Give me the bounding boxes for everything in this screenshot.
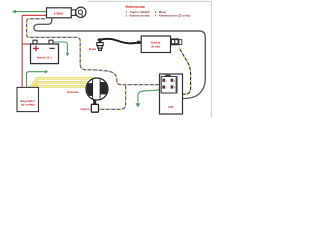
svg-text:de voltaje: de voltaje [21,103,35,107]
pickup "Captor" [91,104,98,112]
svg-text:Captor: Captor [80,107,90,111]
ground symbol (masa arrow, battery) [66,53,70,57]
svg-text:Referencias: Referencias [126,5,145,9]
ground symbol (masa arrow, left) [12,10,16,14]
wire: green ground from CDI pin 3 [135,90,159,108]
CDI pin 3 [162,86,165,89]
wire: red branch to battery + terminal [22,43,33,45]
CDI connector [161,75,177,93]
wire: green ground lead from ignition switch [12,10,47,14]
battery BT1 positive terminal [33,40,37,44]
wire: green ground from regulator [27,70,49,87]
ground symbol (masa arrow, CDI) [135,103,140,107]
battery BT1 body [31,44,59,64]
battery + polarity mark [33,46,39,52]
ignition coil "Bobina de alta" [137,36,171,53]
wire: red 12V from switch down to battery + and regulator [22,15,46,87]
wire: yellow stator output 1 (top) [36,78,95,87]
svg-text:Bujia: Bujia [89,47,96,51]
svg-text:CDI: CDI [168,105,173,109]
svg-text:de alta: de alta [151,44,161,48]
stator coil block left [86,82,108,96]
key shaft [71,10,75,16]
wire: black/yellow from ignition coil to CDI pin 2 [179,48,190,95]
CDI pin 4 [171,86,174,89]
CDI unit box [160,74,183,114]
wire: yellow stator output 2 (middle) [33,82,92,87]
spark plug "Bujia" [97,38,103,50]
key head [76,7,86,17]
wire: green ground from battery - terminal [53,42,69,56]
battery - polarity mark [50,47,55,49]
flywheel / stator circle [86,78,108,100]
wire: blue/yellow signal wire from switch to CDI pin 1 [27,19,160,85]
CDI pin 1 [162,79,165,82]
wire: blue/yellow branch from pickup (captor) to CDI signal line [99,85,126,110]
wire: grey feed from switch around to CDI pin 4 [34,18,205,99]
ignition switch "Llave" [47,8,72,18]
wire: yellow stator output 3 (bottom) [30,86,88,87]
wire: spark plug HT cable [101,39,138,44]
svg-text:4 - Alimentación (12 volts): 4 - Alimentación (12 volts) [155,14,191,18]
svg-text:Bateria 12 v.: Bateria 12 v. [37,56,52,60]
svg-text:Llave: Llave [54,11,63,15]
battery BT1 negative terminal [49,40,53,44]
legend "Referencias" [126,5,191,18]
svg-text:Bobinas: Bobinas [67,90,79,94]
regulator box "Regulador de voltaje" [17,87,39,111]
frame border (faint, cropped scan) [88,1,211,117]
stem to pickup [93,100,96,105]
svg-text:2 - Bobina de alta: 2 - Bobina de alta [126,14,150,18]
stator core slot edges [92,79,94,99]
CDI pin 2 [171,79,174,82]
coil output connector [170,38,181,45]
ground symbol (masa arrow, regulator) [45,70,49,74]
